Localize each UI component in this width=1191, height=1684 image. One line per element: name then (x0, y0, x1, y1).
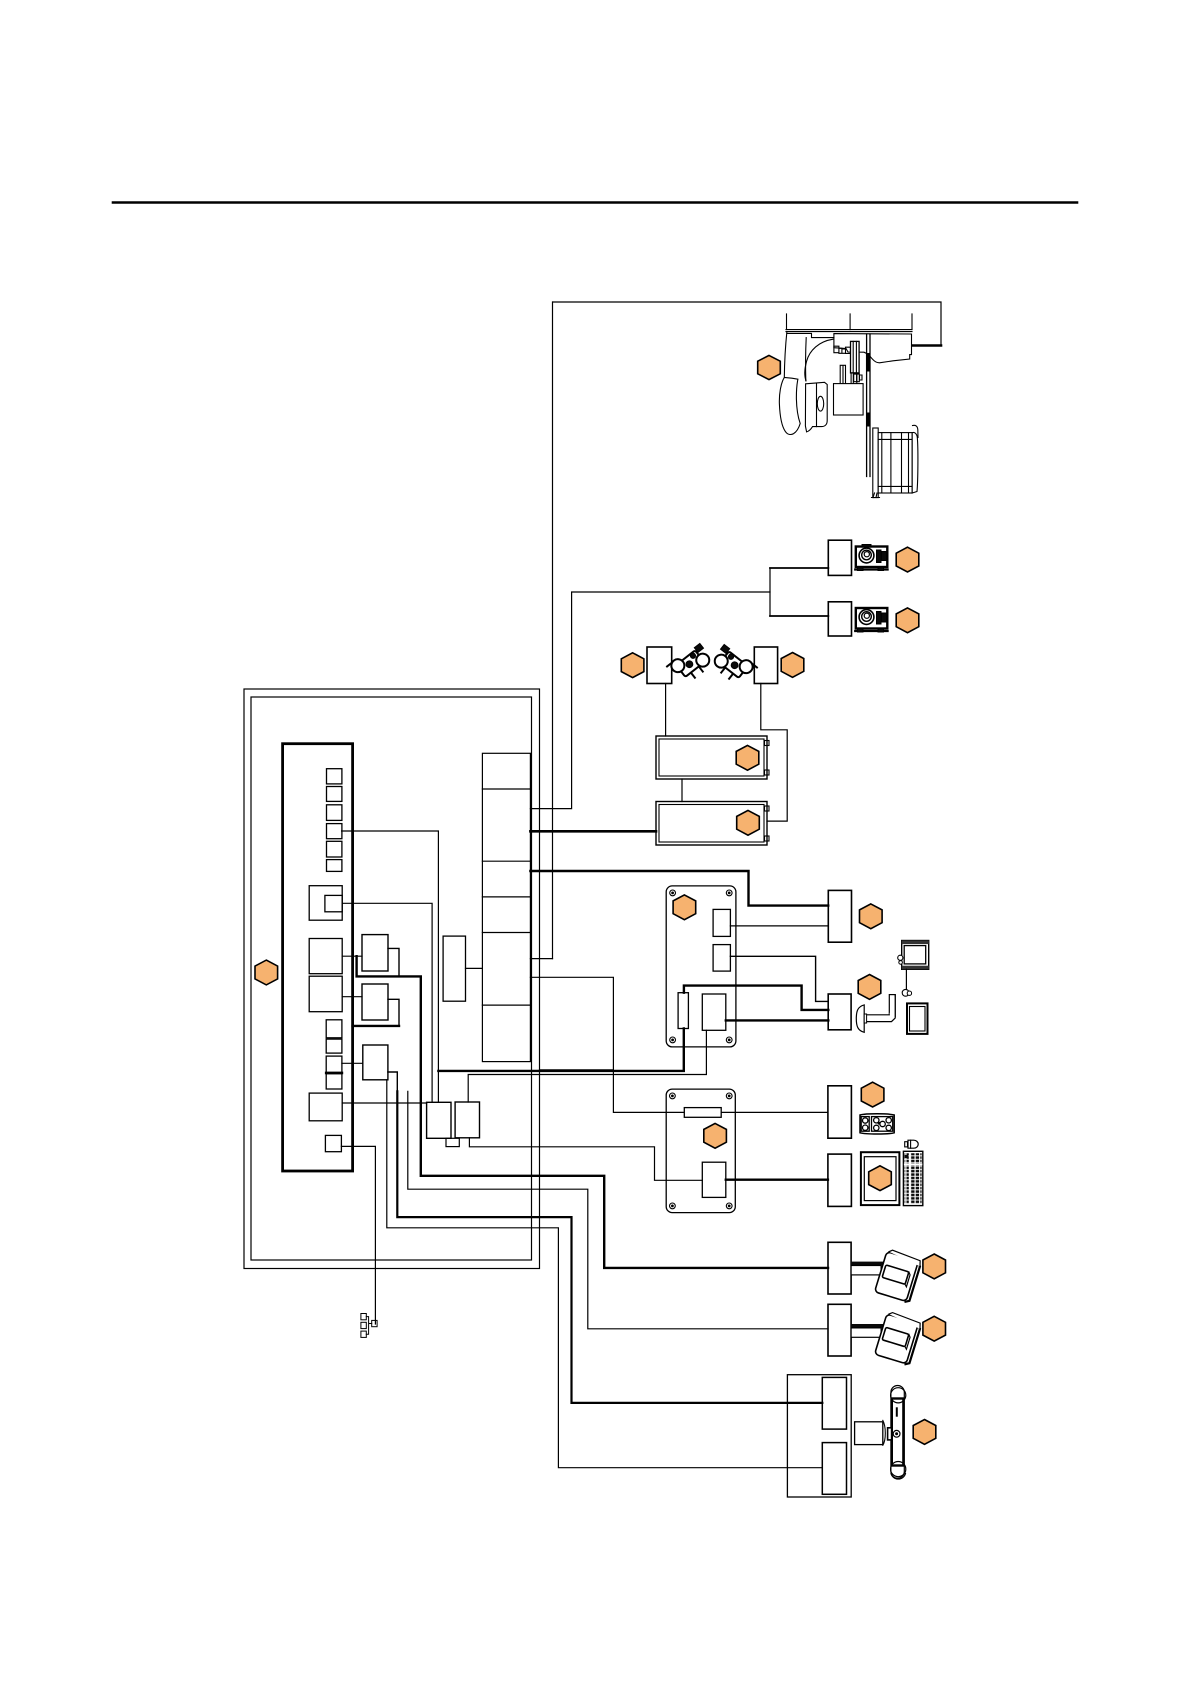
connector box conn4 (828, 1154, 852, 1206)
callout hexagon conn1 (860, 904, 883, 929)
wire Q top feeder (468, 1030, 706, 1102)
lower body divider (816, 384, 818, 427)
PCB1 connector J2 (713, 945, 730, 972)
callout hexagon PCB2 (704, 1123, 727, 1148)
wire column box bottom (540, 1069, 614, 1071)
wire PCB2 relay to conn4 thick (726, 1178, 828, 1180)
callout hexagon cabinet (255, 960, 278, 985)
intercom phone 2 (874, 1311, 922, 1365)
mast top lip (787, 333, 834, 337)
callout hexagon collimator left (621, 653, 644, 678)
junction box Q (455, 1102, 479, 1138)
mast right edge (805, 338, 808, 381)
callout hexagon machine (758, 355, 781, 379)
wire column to camera feeder (530, 592, 770, 809)
bottom box port 2 (822, 1443, 846, 1495)
wire socket to P box (342, 903, 432, 1102)
arm C-curve (805, 339, 833, 381)
junction P stub (446, 1138, 459, 1146)
wire collimator right down (761, 684, 787, 822)
intercom phone 1 (874, 1249, 922, 1303)
plate hanger ticks (787, 314, 913, 330)
mini square 3 thick base (326, 1072, 342, 1075)
wire machine stub thick (897, 344, 941, 347)
connector box conn6 (828, 1304, 851, 1356)
callout hexagon camera 2 (896, 608, 919, 633)
wire J1 to conn1 (730, 925, 828, 927)
cassette right cap (912, 432, 918, 493)
head housing right (834, 334, 912, 363)
wire PCB1 internal thick (684, 986, 828, 1010)
wire R2 step base thick (353, 1025, 399, 1027)
callout hexagon box B (737, 810, 760, 835)
relay R1 step (388, 948, 399, 976)
phone bracket 2 body (851, 1328, 881, 1337)
PCB board 2 (666, 1089, 735, 1213)
mount arm horizontal (866, 995, 895, 1022)
wire F1 to relay R1 (342, 955, 362, 957)
collimator top cluster (834, 346, 851, 353)
motor device icon left (667, 641, 715, 687)
connector box camera 2 (828, 602, 851, 636)
wire aux to network (341, 1146, 375, 1324)
monitor 2 (907, 1003, 928, 1034)
terminal square 4 (327, 824, 342, 839)
wire column to box B thick (530, 830, 656, 833)
wire R3 step cascade thick to bottom box upper (397, 1091, 822, 1403)
mount pivot (902, 989, 909, 996)
collimator left strips (840, 365, 845, 393)
terminal square 3 (327, 805, 342, 821)
node column tick (530, 958, 552, 960)
tablet display (861, 1152, 900, 1205)
terminal square 1 (327, 769, 342, 784)
wire monitor stand (905, 969, 907, 991)
connector box collimator left (647, 647, 672, 684)
mouse icon (905, 1140, 918, 1148)
callout hexagon phone 2 (923, 1316, 946, 1341)
wire column box loop (530, 977, 828, 1112)
connector box conn3 (828, 1086, 852, 1138)
callout hexagon PCB1 (673, 895, 696, 920)
screw top-right (726, 890, 732, 896)
collimator neck (851, 373, 857, 386)
crescent blob (779, 378, 800, 435)
cassette flanges (878, 439, 912, 486)
connector box collimator right (754, 647, 777, 684)
screw bottom-left (670, 1037, 676, 1043)
wire camera junction (769, 568, 771, 616)
X-ray tube head assembly (779, 314, 918, 498)
horn stem (864, 1014, 866, 1023)
socket box inner (325, 895, 342, 911)
bottom interface box (787, 1375, 851, 1497)
bottom box port 1 (822, 1377, 846, 1429)
wire R3 cascade to bottom box lower (387, 1080, 823, 1468)
connector box conn2 (828, 994, 851, 1030)
relay R2 (362, 984, 388, 1020)
wire R1 thick cascade to phone conn 1 (357, 956, 828, 1268)
PCB1 connector J1 (713, 909, 730, 936)
terminal square 2 (327, 787, 342, 802)
wire F2 to relay R2 (342, 996, 362, 998)
fuse square F1 (309, 939, 342, 974)
screw bottom-right (726, 1203, 732, 1209)
cassette drum ribs (882, 433, 909, 493)
mount arm vertical (889, 995, 895, 1017)
aux square (325, 1135, 341, 1151)
network connector icon (361, 1314, 377, 1338)
wire to camera conn 2 (770, 615, 828, 617)
relay R2 step (388, 999, 399, 1025)
phone bracket 1 thick bar (851, 1262, 885, 1266)
wire thick cabinet to PCB1 lower (438, 1029, 683, 1071)
wire mini3 to relay R3 (342, 1062, 363, 1064)
connector box conn5 (828, 1242, 851, 1294)
wire column to PCB1 thick (530, 871, 828, 906)
sensor connector stub (855, 1422, 883, 1445)
slide rail dark segment (867, 355, 870, 371)
connector box camera 1 (828, 540, 851, 575)
breaker square (309, 1093, 342, 1121)
PCB2 relay module (702, 1162, 726, 1197)
PCB1 module (702, 994, 726, 1030)
terminal square 6 (327, 860, 342, 872)
wire to camera conn 1 (770, 567, 828, 569)
callout hexagon sensor (913, 1420, 936, 1445)
mast left edge (784, 332, 787, 378)
callout hexagon camera 1 (896, 547, 919, 572)
motor device icon right (709, 642, 757, 688)
control board thick box (283, 744, 353, 1171)
callout hexagon box A (736, 745, 759, 770)
mini square 4 (326, 1074, 342, 1089)
header rule (113, 201, 1077, 204)
relay R3 (363, 1045, 388, 1080)
wire side relay to column (466, 967, 483, 969)
relay R1 (362, 935, 388, 971)
lower body (805, 382, 827, 432)
keyboard vertical (903, 1151, 922, 1205)
lower body ellipse (817, 396, 823, 411)
ceph sensor bar (888, 1386, 906, 1480)
socket box outer (309, 886, 342, 921)
mini square 2 (326, 1039, 342, 1053)
screw top-right (726, 1093, 732, 1099)
PCB board 1 (666, 886, 736, 1047)
wire feeder column to machine (552, 302, 554, 959)
callout hexagon conn3 (861, 1082, 884, 1107)
screw top-left (670, 890, 676, 896)
column side relay (443, 936, 465, 1001)
cassette left plate (873, 428, 878, 498)
wire machine enclosure top (553, 302, 941, 345)
sensor stub curve (883, 1420, 886, 1445)
cassette feet (872, 493, 880, 498)
PCB1 resistor (678, 993, 688, 1029)
wire module to conn2 thick (726, 1019, 829, 1021)
callout hexagon conn2 (858, 975, 881, 1000)
cassette right hook (913, 425, 919, 437)
relay R3 step (388, 1072, 397, 1091)
x-ray beam box (834, 384, 864, 415)
wire box A to box B (681, 779, 683, 802)
monitor 1 (898, 941, 929, 970)
carriage plate (786, 330, 912, 332)
callout hexagon collimator right (781, 653, 804, 678)
handswitch button panel (860, 1114, 894, 1134)
CCD camera icon 2 (855, 608, 887, 632)
connector box conn1 (828, 890, 851, 942)
callout hexagon tablet (869, 1166, 892, 1191)
phone bracket 2 thick bar (851, 1324, 885, 1328)
wall horn (856, 1005, 864, 1032)
callout hexagon phone 1 (923, 1254, 946, 1279)
PCB2 fuse on wire (684, 1108, 721, 1118)
collimator column (851, 341, 860, 373)
mini square 1 (326, 1020, 342, 1038)
wire terminal4 long (342, 831, 439, 1102)
terminal strip column (482, 753, 530, 1061)
slide rail (867, 334, 870, 477)
wire breaker to P box (342, 1102, 426, 1104)
main cabinet outer border (244, 689, 540, 1269)
fuse square F2 (309, 976, 342, 1012)
mini square 3 (326, 1056, 342, 1073)
collimator column inner (853, 341, 856, 373)
screw top-left (670, 1093, 676, 1099)
junction box P (427, 1102, 451, 1138)
wire R3 step vertical (408, 1091, 828, 1328)
screw bottom-left (670, 1203, 676, 1209)
wire J2 to conn2 (730, 956, 828, 1001)
screw bottom-right (726, 1037, 732, 1043)
phone bracket 1 body (851, 1266, 881, 1275)
power box A (656, 736, 769, 779)
power box B (656, 802, 769, 846)
terminal square 5 (327, 841, 342, 857)
cassette drum (878, 433, 912, 493)
CCD camera icon 1 (855, 545, 887, 571)
slide rail lower dark (867, 414, 870, 425)
monitor clamp (898, 955, 903, 960)
wire Q to PCB2 relay (469, 1138, 702, 1181)
collimator right bars (854, 374, 862, 382)
wire collimator left down (665, 684, 667, 737)
main cabinet inner border (251, 697, 532, 1260)
